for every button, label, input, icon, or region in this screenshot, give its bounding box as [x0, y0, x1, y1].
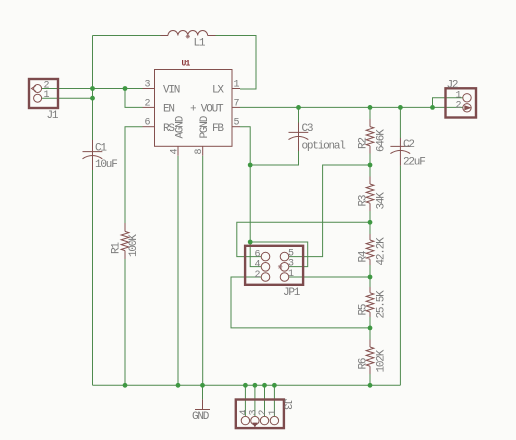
svg-text:U1: U1 [182, 60, 191, 69]
svg-text:2: 2 [255, 270, 261, 281]
IC U1 [143, 60, 241, 156]
svg-text:J1: J1 [47, 110, 59, 122]
pin 2 EN [143, 106, 155, 108]
svg-text:C3: C3 [302, 123, 313, 135]
resistor R4 [358, 234, 388, 266]
resistor R2 [358, 119, 388, 154]
wire R6 bottom [369, 374, 371, 385]
svg-text:1: 1 [44, 90, 50, 101]
wire R2 bottom / R3 top [369, 154, 371, 177]
wire FB net [240, 127, 261, 267]
wire R4R5 junction to JP1 pin1 [289, 276, 370, 278]
resistor R6 [358, 340, 388, 375]
wire RS to R1 [125, 127, 143, 223]
svg-text:8: 8 [194, 148, 205, 154]
svg-text:J3: J3 [281, 398, 293, 409]
svg-text:6: 6 [145, 118, 151, 129]
wire J1 pin1 to net [42, 97, 93, 99]
svg-text:FB: FB [212, 123, 224, 135]
svg-text:JP1: JP1 [283, 287, 301, 299]
svg-text:R3: R3 [358, 195, 370, 206]
pin 5 FB [232, 126, 240, 128]
svg-text:2: 2 [456, 100, 462, 111]
wire J1 pin2 to VIN [42, 88, 143, 90]
wire JP1 pin2 to R5R6 junction [231, 277, 370, 328]
wire R5 bottom / R6 top [369, 317, 371, 340]
wire AGND drop [177, 156, 179, 386]
wire FB to JP1 pin3 [250, 242, 308, 267]
svg-text:1: 1 [288, 269, 294, 280]
svg-text:R2: R2 [358, 138, 370, 149]
wire GND stub [202, 385, 204, 399]
svg-text:22uF: 22uF [403, 157, 425, 169]
svg-text:100K: 100K [128, 234, 140, 257]
pin 3 VIN [143, 88, 155, 90]
svg-text:R5: R5 [358, 304, 370, 315]
wire R3R4 junction to JP1 pin6 [237, 222, 370, 256]
pin 8 PGND [202, 146, 204, 155]
wire J3 pin drops [245, 385, 274, 416]
svg-text:2: 2 [145, 98, 151, 109]
pin 1 LX [232, 88, 240, 90]
inductor L1 [161, 31, 216, 50]
svg-text:10uF: 10uF [95, 159, 117, 171]
resistor R3 [358, 177, 388, 212]
wire R4 bottom / R5 top [369, 265, 371, 287]
svg-text:R4: R4 [358, 250, 370, 262]
wire VOUT line [240, 106, 463, 108]
svg-text:GND: GND [192, 411, 210, 423]
svg-text:7: 7 [234, 98, 240, 109]
wire J2 pin1 branch [433, 98, 463, 108]
svg-text:3: 3 [145, 80, 151, 91]
svg-text:102K: 102K [376, 349, 388, 372]
resistor R5 [358, 287, 388, 319]
svg-text:4: 4 [170, 148, 181, 154]
pin 7 VOUT [232, 106, 240, 108]
resistor R1 [111, 223, 141, 259]
svg-text:42.2K: 42.2K [376, 237, 388, 266]
svg-text:LX: LX [212, 85, 224, 97]
header JP1 [245, 246, 303, 299]
svg-text:+ VOUT: + VOUT [190, 104, 224, 116]
wire R2 top [369, 107, 371, 119]
svg-text:25.5K: 25.5K [376, 290, 388, 319]
junction dots [90, 86, 95, 91]
wire VIN vertical net [92, 36, 94, 141]
ground symbol GND [192, 399, 210, 423]
svg-text:AGND: AGND [175, 115, 187, 138]
svg-text:1: 1 [234, 80, 240, 91]
svg-text:EN: EN [163, 104, 174, 116]
svg-text:VIN: VIN [163, 85, 180, 97]
capacitor C3 [289, 123, 346, 153]
wire R3 bottom / R4 top [369, 211, 371, 234]
svg-text:C1: C1 [95, 143, 107, 155]
svg-text:R6: R6 [358, 358, 370, 369]
wire PGND drop [202, 156, 204, 386]
svg-text:1: 1 [268, 409, 279, 415]
svg-text:PGND: PGND [199, 115, 211, 138]
svg-text:R1: R1 [111, 242, 123, 254]
wire C3 drop [298, 107, 300, 122]
svg-text:L1: L1 [194, 38, 206, 50]
svg-text:646K: 646K [376, 129, 388, 152]
wire EN tie-high [125, 89, 143, 108]
wire ground bus [93, 384, 401, 386]
wire C2 drop [399, 107, 401, 138]
svg-text:J2: J2 [447, 79, 458, 91]
svg-text:34K: 34K [376, 192, 388, 210]
pin 4 AGND [177, 146, 179, 155]
wire inductor to LX [216, 36, 257, 90]
connector J2 [446, 79, 477, 117]
svg-text:5: 5 [234, 118, 240, 129]
capacitor C2 [390, 138, 425, 169]
pin 6 RS [143, 126, 155, 128]
connector J3 [236, 398, 293, 428]
wire R2R3 junction to JP1 pin5 [289, 165, 370, 257]
wire top from VIN net to inductor [93, 35, 161, 37]
svg-text:optional: optional [302, 141, 346, 153]
capacitor C1 [83, 140, 118, 171]
svg-text:C2: C2 [403, 139, 414, 151]
connector J1 [29, 79, 59, 122]
